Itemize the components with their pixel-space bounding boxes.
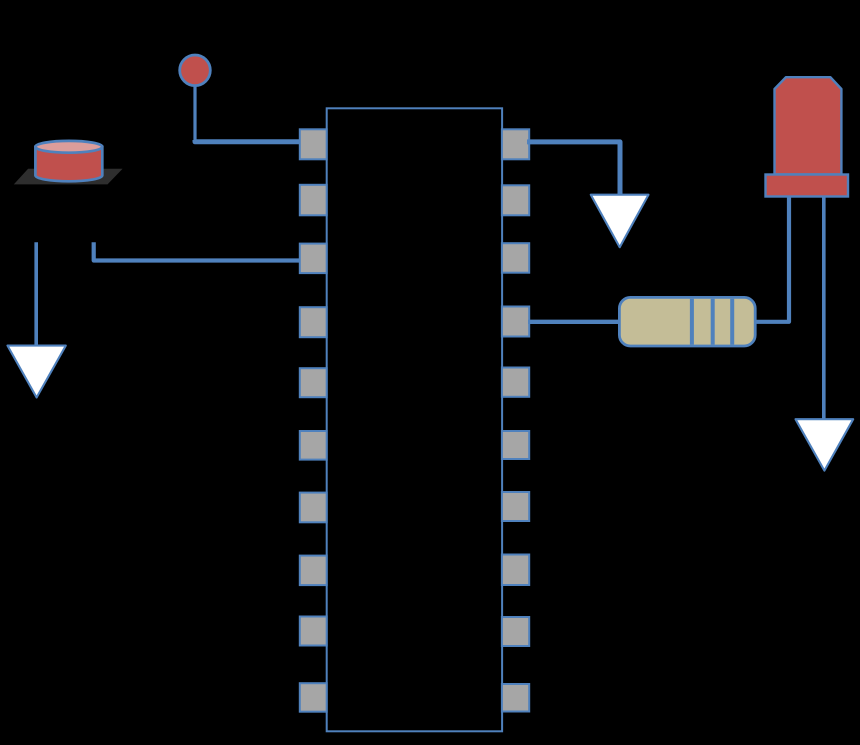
pin 6 left bbox=[300, 431, 327, 460]
IC U1 body bbox=[327, 108, 502, 731]
resistor R1 bbox=[619, 297, 755, 346]
pin 7 left bbox=[300, 493, 327, 523]
band 3 bbox=[730, 299, 734, 345]
pin 10 right bbox=[502, 684, 529, 712]
ground GND3 bbox=[796, 419, 854, 470]
wire button terminal to ground bbox=[34, 242, 38, 345]
pin 6 right bbox=[502, 431, 529, 459]
pin 8 left bbox=[300, 556, 327, 586]
pin 7 right bbox=[502, 492, 529, 521]
pushbutton S1 cap (cylinder) bbox=[35, 141, 102, 181]
wire VCC to pin 1 left bbox=[195, 140, 301, 142]
pin 5 right bbox=[502, 368, 529, 397]
band 1 bbox=[690, 299, 694, 345]
pin 1 left bbox=[300, 129, 327, 159]
pin 5 left bbox=[300, 368, 327, 397]
ground GND2 bbox=[591, 195, 649, 248]
pin 1 right bbox=[502, 129, 529, 159]
LED D1 dome bbox=[775, 77, 842, 174]
wire pin 1 right to ground bbox=[527, 142, 620, 195]
ground GND1 bbox=[8, 346, 66, 398]
pin 4 left bbox=[300, 307, 327, 337]
pin 2 right bbox=[502, 185, 529, 215]
pin 9 left bbox=[300, 617, 327, 646]
band 2 bbox=[711, 299, 715, 345]
node VCC (red circle terminal) bbox=[180, 55, 211, 86]
wire button terminal to pin 3 left bbox=[94, 242, 301, 260]
pushbutton S1 base plate bbox=[14, 169, 123, 185]
LED D1 flange bbox=[766, 175, 849, 197]
LED anode leg to ground bbox=[822, 197, 826, 420]
pin 9 right bbox=[502, 617, 529, 646]
wire pin 4 right to resistor bbox=[528, 320, 620, 324]
wire resistor to LED cathode bbox=[755, 197, 789, 322]
pin 3 left bbox=[300, 244, 327, 274]
pin 2 left bbox=[300, 185, 327, 216]
pin 4 right bbox=[502, 307, 529, 337]
pin 10 left bbox=[300, 683, 327, 712]
pin 8 right bbox=[502, 555, 529, 586]
wire VCC stem bbox=[193, 86, 196, 140]
pin 3 right bbox=[502, 243, 529, 273]
